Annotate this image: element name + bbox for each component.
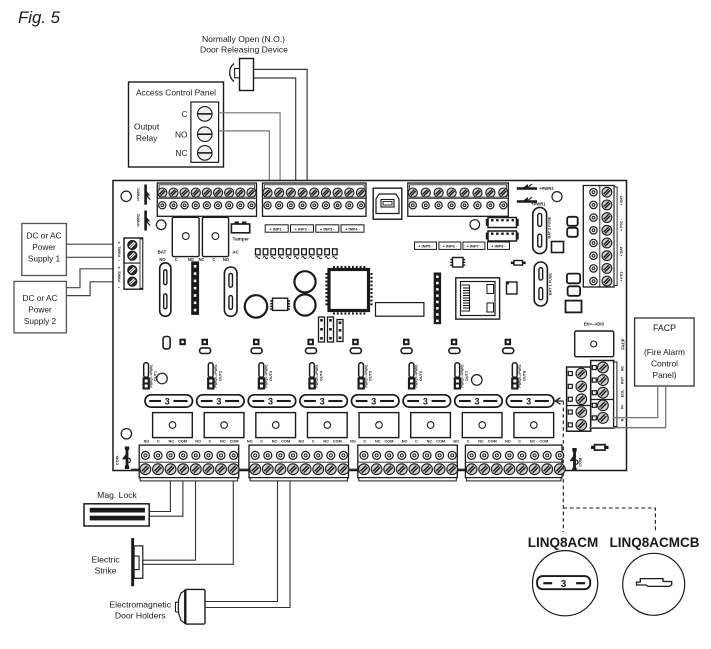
mounting hole mid-left xyxy=(156,220,166,230)
svg-text:PWR2<->PWR1: PWR2<->PWR1 xyxy=(415,364,419,387)
small part right of SOIC xyxy=(511,261,526,266)
svg-text:+PWR2: +PWR2 xyxy=(137,214,141,227)
svg-text:+PWR1: +PWR1 xyxy=(531,202,546,207)
terminal block top-right (8 pos) xyxy=(408,183,509,216)
relay BAT xyxy=(172,217,199,256)
svg-text:PWR2<->PWR1: PWR2<->PWR1 xyxy=(518,364,522,387)
svg-text:NO: NO xyxy=(175,129,188,139)
IC right small xyxy=(552,242,564,253)
svg-text:R+: R+ xyxy=(621,404,625,409)
bottom terminal block 1 xyxy=(139,445,239,481)
pin header strip vertical xyxy=(434,273,441,325)
svg-text:NO: NO xyxy=(188,257,195,262)
svg-text:OUT3: OUT3 xyxy=(269,371,273,381)
svg-text:C: C xyxy=(312,439,315,443)
svg-text:C: C xyxy=(363,439,366,443)
svg-text:Relay: Relay xyxy=(136,133,158,143)
svg-text:COM: COM xyxy=(178,439,187,443)
svg-text:3: 3 xyxy=(216,396,221,406)
wire strike 2 xyxy=(143,481,234,564)
svg-text:3: 3 xyxy=(268,396,273,406)
svg-text:NO: NO xyxy=(505,439,511,443)
mounting hole top-right xyxy=(552,192,562,202)
small square IC right xyxy=(507,282,518,294)
FACP terminal block left column xyxy=(567,367,591,431)
LINQ8ACM detail circle xyxy=(533,551,598,616)
small IC SOIC8 center xyxy=(270,298,290,310)
svg-text:PWR2<->PWR1: PWR2<->PWR1 xyxy=(461,364,465,387)
svg-text:3: 3 xyxy=(475,396,480,406)
svg-text:NO: NO xyxy=(195,439,201,443)
surge suppressor +PWR2 xyxy=(146,211,151,231)
svg-text:NC: NC xyxy=(175,148,187,158)
svg-text:Electromagnetic: Electromagnetic xyxy=(109,600,171,610)
svg-text:+ PS1 -: + PS1 - xyxy=(620,269,624,282)
jumper cluster LK xyxy=(319,317,325,342)
svg-text:3: 3 xyxy=(561,579,567,590)
output channel 2 xyxy=(195,363,244,444)
terminal NO xyxy=(198,127,213,142)
svg-text:FACP: FACP xyxy=(653,323,676,333)
svg-text:C: C xyxy=(175,257,178,262)
svg-text:+ INP6 -: + INP6 - xyxy=(443,244,458,249)
terminal block right edge (8 pos vertical) xyxy=(583,186,617,288)
connection stubs between bottom blocks xyxy=(131,468,139,470)
svg-text:+ INP3 -: + INP3 - xyxy=(320,226,335,231)
mounting hole ch1 xyxy=(157,373,168,384)
electromagnetic door holder device xyxy=(176,589,206,624)
pin header INP B xyxy=(486,231,519,241)
svg-text:+ INP1 -: + INP1 - xyxy=(269,226,284,231)
svg-text:NC: NC xyxy=(427,439,433,443)
svg-text:PWR2<->PWR1: PWR2<->PWR1 xyxy=(149,364,153,387)
svg-text:PWR1: PWR1 xyxy=(118,246,122,257)
svg-text:EOL: EOL xyxy=(621,389,625,397)
arrow to channel 8 relay xyxy=(558,400,564,402)
svg-text:OUT8: OUT8 xyxy=(522,371,526,381)
svg-text:NO: NO xyxy=(144,439,150,443)
svg-text:LINQ8ACM: LINQ8ACM xyxy=(528,535,599,550)
fuse holder left A xyxy=(160,263,171,317)
surge suppressor +PWR1 xyxy=(146,185,151,205)
svg-text:OUT4: OUT4 xyxy=(320,370,324,381)
svg-text:Normally Open (N.O.): Normally Open (N.O.) xyxy=(202,34,285,44)
svg-text:C: C xyxy=(212,257,215,262)
svg-text:+: + xyxy=(118,241,121,246)
relay AC xyxy=(202,217,228,256)
svg-text:COM -: COM - xyxy=(579,455,583,467)
svg-text:OUT5: OUT5 xyxy=(369,371,373,381)
wire supply2 - xyxy=(66,282,124,296)
COM- surge bottom-right xyxy=(570,448,579,471)
terminal block top-mid (9 pos) xyxy=(263,183,367,216)
svg-text:EN<-->DIS: EN<-->DIS xyxy=(584,322,605,327)
terminal block top-left (9 pos) xyxy=(157,183,256,216)
wire strike 1 xyxy=(143,481,196,560)
svg-text:+ INP2 -: + INP2 - xyxy=(295,226,310,231)
input labels INP1-INP4 xyxy=(265,225,288,232)
toroid ring 2 xyxy=(294,294,315,315)
svg-text:NC: NC xyxy=(198,257,204,262)
jumper header strip xyxy=(191,261,199,315)
svg-text:COM: COM xyxy=(281,439,290,443)
svg-text:Door Releasing Device: Door Releasing Device xyxy=(200,45,288,55)
svg-text:DC or AC: DC or AC xyxy=(22,293,57,303)
svg-text:3: 3 xyxy=(165,396,170,406)
rectangular component (crystal) xyxy=(376,303,424,317)
svg-text:NO: NO xyxy=(402,439,408,443)
svg-text:C: C xyxy=(467,439,470,443)
wire holder 1 xyxy=(205,481,278,602)
svg-text:Tamper: Tamper xyxy=(233,237,249,242)
svg-text:Panel): Panel) xyxy=(652,370,676,380)
FACP box xyxy=(635,318,695,386)
tamper connector xyxy=(231,222,249,233)
COM- surge bottom-left xyxy=(122,447,131,470)
svg-text:Mag. Lock: Mag. Lock xyxy=(97,490,137,500)
svg-text:+ BAT -: + BAT - xyxy=(620,193,624,206)
ethernet RJ45 jack xyxy=(456,278,500,319)
svg-text:(Fire Alarm: (Fire Alarm xyxy=(644,347,685,357)
PCB board outline xyxy=(113,181,627,471)
svg-text:NC: NC xyxy=(169,439,175,443)
svg-text:NO: NO xyxy=(453,439,459,443)
svg-text:COM: COM xyxy=(488,439,497,443)
wire device to terminal xyxy=(254,69,308,181)
toroid ring 3 xyxy=(245,295,267,317)
output channel 6 xyxy=(402,363,451,444)
svg-text:C: C xyxy=(518,439,521,443)
mounting hole mid-top xyxy=(470,220,480,230)
svg-text:C: C xyxy=(181,109,187,119)
small caps right column xyxy=(567,217,578,226)
wire FACP 2 xyxy=(589,386,666,428)
svg-text:PWR2<->PWR1: PWR2<->PWR1 xyxy=(315,364,319,387)
svg-text:NC: NC xyxy=(272,439,278,443)
svg-text:3: 3 xyxy=(320,396,325,406)
svg-text:Door Holders: Door Holders xyxy=(115,611,166,621)
svg-text:+ INP4 -: + INP4 - xyxy=(345,226,360,231)
svg-text:FACP: FACP xyxy=(621,338,626,349)
bottom terminal block 4 xyxy=(465,445,565,481)
svg-text:+ INP7 -: + INP7 - xyxy=(467,244,482,249)
wire supply1 - xyxy=(66,256,124,258)
mounting hole ch7 xyxy=(472,375,483,386)
wire NO to board xyxy=(219,131,270,181)
svg-text:Power: Power xyxy=(28,305,52,315)
caps right column 2 xyxy=(567,274,580,284)
svg-text:+ PS2 -: + PS2 - xyxy=(620,218,624,231)
svg-text:3: 3 xyxy=(423,396,428,406)
svg-text:Electric: Electric xyxy=(92,555,121,565)
svg-text:NC: NC xyxy=(375,439,381,443)
svg-text:COM: COM xyxy=(539,439,548,443)
svg-text:OUT2: OUT2 xyxy=(218,371,222,381)
relay FACP xyxy=(575,331,614,357)
svg-text:AC: AC xyxy=(232,249,239,254)
small component row above channels xyxy=(200,339,211,354)
svg-text:NO: NO xyxy=(159,257,166,262)
svg-text:Fig. 5: Fig. 5 xyxy=(18,8,61,27)
mounting hole top-left xyxy=(121,191,131,201)
fuse BAT2 xyxy=(533,207,547,253)
svg-text:Supply 1: Supply 1 xyxy=(28,254,61,264)
svg-text:C: C xyxy=(415,439,418,443)
output channel 1 xyxy=(143,337,193,444)
DC or AC Power Supply 1 box xyxy=(22,224,67,276)
svg-text:COM: COM xyxy=(385,439,394,443)
input labels INP5-INP8 xyxy=(415,242,437,249)
svg-text:OUT7: OUT7 xyxy=(465,371,469,381)
svg-text:NC: NC xyxy=(621,366,625,372)
fuse holder left B xyxy=(224,267,237,316)
svg-text:COM -: COM - xyxy=(115,453,119,465)
svg-text:+ INP8 -: + INP8 - xyxy=(491,244,506,249)
surge suppressor +PWR2 (horizontal) xyxy=(517,184,537,189)
svg-text:+PWR2: +PWR2 xyxy=(539,186,554,191)
SOIC IC top xyxy=(450,258,465,268)
square IC right 2 xyxy=(566,301,582,313)
svg-text:PWR2<->PWR1: PWR2<->PWR1 xyxy=(265,364,269,387)
svg-text:NO: NO xyxy=(350,439,356,443)
relay contact block xyxy=(191,102,219,162)
fuse BAT1 xyxy=(534,262,547,306)
svg-text:C: C xyxy=(260,439,263,443)
resistor network row xyxy=(256,249,338,259)
svg-text:PWR2: PWR2 xyxy=(118,271,122,282)
mag lock device xyxy=(84,504,149,526)
wire FACP 1 xyxy=(613,386,658,418)
svg-text:3: 3 xyxy=(526,396,531,406)
svg-text:3: 3 xyxy=(371,396,376,406)
svg-text:+PWR1: +PWR1 xyxy=(137,188,141,201)
surge suppressor +PWR1 (horizontal) xyxy=(517,197,537,202)
svg-text:Output: Output xyxy=(134,122,160,132)
pin header INP A xyxy=(486,218,519,228)
svg-text:OUT6: OUT6 xyxy=(419,371,423,381)
svg-text:Control: Control xyxy=(651,359,678,369)
wire holder 2 xyxy=(205,481,290,608)
svg-text:DC or AC: DC or AC xyxy=(26,231,61,241)
svg-text:COM: COM xyxy=(333,439,342,443)
svg-text:NO: NO xyxy=(247,439,253,443)
toroid ring 1 xyxy=(294,271,315,292)
output channel 8 xyxy=(505,363,554,444)
terminal C xyxy=(198,107,213,122)
mounting hole bottom-left xyxy=(121,429,131,439)
svg-text:NC: NC xyxy=(323,439,329,443)
dashed pointer relay xyxy=(562,401,564,532)
bottom terminal block 2 xyxy=(249,445,349,481)
svg-text:PWR2<->PWR1: PWR2<->PWR1 xyxy=(364,364,368,387)
output channel 7 xyxy=(453,363,502,444)
svg-text:NC: NC xyxy=(220,439,226,443)
svg-text:Strike: Strike xyxy=(95,566,117,576)
wire supply2 + xyxy=(66,269,124,288)
svg-text:Access Control Panel: Access Control Panel xyxy=(136,88,216,98)
svg-text:COM: COM xyxy=(436,439,445,443)
svg-text:C: C xyxy=(157,439,160,443)
USB-B connector xyxy=(373,188,402,219)
microcontroller IC U1 xyxy=(325,266,372,315)
svg-text:NC: NC xyxy=(530,439,536,443)
svg-text:Power: Power xyxy=(32,242,56,252)
wire device to terminal 2 xyxy=(254,78,296,181)
svg-text:NO: NO xyxy=(299,439,305,443)
svg-text:NC: NC xyxy=(478,439,484,443)
power input terminal block left xyxy=(124,238,143,289)
wire C to board xyxy=(219,113,281,181)
svg-text:PWR2<->PWR1: PWR2<->PWR1 xyxy=(214,364,218,387)
DC or AC Power Supply 2 box xyxy=(14,281,66,333)
svg-text:COM: COM xyxy=(230,439,239,443)
svg-text:+ BAT -: + BAT - xyxy=(620,243,624,256)
svg-text:BAT 1 FUSE: BAT 1 FUSE xyxy=(549,273,553,295)
svg-text:+ INP5 -: + INP5 - xyxy=(418,244,433,249)
FACP terminal block right column xyxy=(591,361,617,429)
svg-text:BAT: BAT xyxy=(158,249,167,254)
access control panel box xyxy=(129,82,224,167)
bottom terminal block 3 xyxy=(358,445,458,481)
svg-text:+: + xyxy=(118,266,121,271)
output channel 5 xyxy=(350,363,399,444)
svg-text:BAT 2 FUSE: BAT 2 FUSE xyxy=(548,216,552,238)
electric strike device xyxy=(131,538,143,586)
output channel 3 xyxy=(247,363,296,444)
small part bottom-right xyxy=(591,445,609,450)
svg-text:Supply 2: Supply 2 xyxy=(24,316,57,326)
wire supply1 + xyxy=(66,243,124,245)
output channel 4 xyxy=(299,363,348,444)
svg-text:RST: RST xyxy=(621,376,625,384)
svg-text:NO: NO xyxy=(223,257,230,262)
wire maglock 1 xyxy=(149,481,170,512)
door releasing device xyxy=(230,59,254,91)
terminal NC xyxy=(198,146,213,161)
LINQ8ACMCB detail circle xyxy=(623,553,685,615)
svg-text:C: C xyxy=(209,439,212,443)
wire maglock 2 xyxy=(149,481,183,516)
svg-text:LINQ8ACMCB: LINQ8ACMCB xyxy=(610,535,700,550)
